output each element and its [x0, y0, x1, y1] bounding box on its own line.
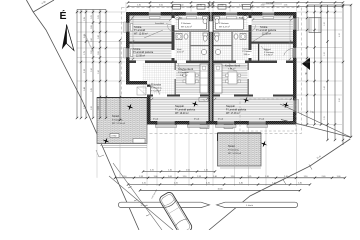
door arc hall right	[229, 63, 237, 71]
partition bath sub right	[214, 31, 249, 32]
svg-text:Fürdő: Fürdő	[239, 17, 245, 20]
svg-text:2.10: 2.10	[91, 106, 93, 110]
bath sink small right	[243, 16, 248, 20]
living left floor	[151, 97, 209, 122]
terrace right tiles	[218, 133, 262, 166]
partition szoba/hall right	[251, 42, 294, 44]
svg-text:(Pa+d): (Pa+d)	[259, 118, 265, 120]
terrace right dark top edge	[218, 132, 262, 134]
svg-text:P. Kerámia: P. Kerámia	[219, 23, 230, 25]
tag box	[110, 134, 119, 138]
window sill right wall top	[297, 18, 299, 31]
svg-text:(Pa+d): (Pa+d)	[218, 118, 224, 120]
right chain top connector	[307, 4, 351, 6]
svg-text:P. Kerámia: P. Kerámia	[181, 23, 192, 25]
car	[158, 191, 193, 236]
svg-text:2.40: 2.40	[298, 183, 302, 185]
dim chain bottom 2	[128, 184, 310, 186]
dim chain left	[77, 9, 106, 11]
marker star	[190, 99, 199, 108]
svg-text:WT: 17.34 m²: WT: 17.34 m²	[112, 122, 125, 125]
partition bath sub left	[175, 31, 209, 32]
svg-text:1.93: 1.93	[139, 176, 143, 178]
radiators left wall windows	[131, 24, 133, 32]
boiler right	[215, 49, 220, 54]
dim chain bottom 1	[115, 177, 345, 179]
boundary east lower diagonal	[209, 139, 350, 230]
svg-text:2.00: 2.00	[168, 176, 172, 178]
party wall center	[209, 12, 211, 125]
dim chain bottom 3	[140, 189, 300, 191]
window sill left wall 1	[124, 22, 126, 33]
chimney stack	[197, 5, 205, 10]
svg-text:WT: 3.47 m²: WT: 3.47 m²	[219, 26, 230, 29]
svg-text:2.40: 2.40	[322, 176, 326, 178]
svg-text:3.46 m²: 3.46 m²	[244, 53, 251, 56]
svg-text:0.95: 0.95	[91, 25, 93, 29]
washer right	[240, 34, 246, 40]
porch overhang dashed right	[240, 99, 296, 131]
svg-text:1.10: 1.10	[204, 170, 208, 172]
partition kamra/belépő right	[258, 44, 259, 61]
svg-text:4.25: 4.25	[142, 183, 146, 185]
svg-text:1.10: 1.10	[168, 170, 172, 172]
svg-text:WT: 12.98 m²: WT: 12.98 m²	[134, 32, 148, 35]
svg-text:1.10: 1.10	[183, 176, 187, 178]
wall left	[126, 12, 130, 82]
svg-text:OTSZ: OTSZ	[111, 136, 117, 138]
svg-text:1.40: 1.40	[324, 86, 326, 90]
kitchen chairs right	[226, 74, 229, 77]
terrace left tiles	[97, 98, 147, 144]
svg-text:0.95: 0.95	[98, 51, 100, 55]
kitchen counter left	[200, 64, 208, 93]
svg-text:1.60: 1.60	[98, 35, 100, 39]
svg-text:P. Laminált parketta: P. Laminált parketta	[175, 108, 196, 111]
svg-text:P. Laminált: P. Laminált	[134, 29, 146, 32]
window sill right wall bottom	[297, 100, 299, 113]
roof overhang dashed	[122, 8, 302, 134]
partition hall top right	[214, 61, 294, 64]
leader in left szoba	[144, 30, 163, 38]
extension lines left	[77, 11, 126, 13]
svg-text:P. Laminált parketta: P. Laminált parketta	[256, 29, 277, 32]
terrace left dark top edge	[97, 97, 147, 99]
svg-text:1.35: 1.35	[84, 17, 86, 21]
road island right pill	[217, 202, 298, 207]
svg-text:2.35: 2.35	[84, 105, 86, 109]
marker star	[101, 136, 110, 145]
radiators top windows	[150, 17, 161, 19]
wall left lower vertical	[147, 85, 151, 122]
door arc bath right	[249, 25, 256, 32]
svg-text:1.25: 1.25	[324, 116, 326, 120]
dim chain bottom short	[143, 171, 215, 173]
svg-text:4.10: 4.10	[339, 33, 341, 37]
kerites diagonal marks	[96, 150, 99, 157]
kitchen counter right	[214, 64, 222, 93]
svg-text:1.20: 1.20	[239, 4, 243, 6]
kitchen left floor	[176, 63, 209, 95]
svg-text:Előszoba: Előszoba	[151, 84, 162, 87]
tag box	[200, 124, 209, 128]
bath corridor left floor	[175, 16, 209, 64]
bath sink small left	[175, 16, 180, 20]
svg-text:1.35: 1.35	[284, 4, 288, 6]
svg-text:2.90: 2.90	[220, 4, 224, 6]
wall right	[293, 12, 297, 125]
door arc bath left	[168, 25, 175, 32]
kitchen chairs left	[183, 74, 186, 77]
extension lines bottom	[146, 125, 148, 186]
chimney stack	[218, 5, 226, 10]
svg-text:1.93: 1.93	[197, 176, 201, 178]
room szoba2 left floor	[130, 44, 172, 61]
svg-text:2.00: 2.00	[98, 106, 100, 110]
svg-text:Fürdő: Fürdő	[177, 17, 183, 20]
svg-text:Szoba: Szoba	[134, 25, 142, 29]
window gaps right wall	[293, 18, 297, 30]
svg-text:7.88 m²: 7.88 m²	[228, 68, 236, 71]
svg-text:P. Kerámia: P. Kerámia	[151, 87, 162, 90]
svg-text:Nappali: Nappali	[175, 104, 184, 108]
wall top	[126, 12, 297, 16]
interior dim szoba1 left	[131, 19, 171, 21]
svg-text:1.75: 1.75	[84, 51, 86, 55]
terrace right step lines	[220, 167, 261, 169]
kitchen table right	[228, 72, 237, 84]
road edge 1	[113, 163, 162, 230]
svg-text:T: 5.23 m²: T: 5.23 m²	[151, 90, 161, 93]
svg-text:4.25: 4.25	[174, 183, 178, 185]
svg-text:WT: 5.20 m²: WT: 5.20 m²	[181, 26, 192, 29]
road edge hash marks	[128, 187, 132, 189]
svg-text:1.10: 1.10	[304, 176, 308, 178]
svg-text:Szemöldök: Szemöldök	[155, 23, 164, 25]
svg-text:3.50: 3.50	[261, 4, 265, 6]
entry door swing	[151, 87, 160, 96]
svg-text:Kamra: Kamra	[243, 49, 250, 51]
svg-text:P. Kerámia: P. Kerámia	[112, 118, 123, 121]
svg-text:1.05: 1.05	[91, 15, 93, 19]
svg-text:2.10: 2.10	[84, 69, 86, 73]
toilet at party wall left	[203, 33, 208, 36]
svg-text:2.90: 2.90	[198, 4, 202, 6]
svg-text:4.25: 4.25	[150, 170, 154, 172]
partition living top left	[147, 95, 209, 97]
interior dim vertical left rooms	[132, 17, 134, 59]
marker star	[125, 102, 134, 111]
svg-text:(Pa+d): (Pa+d)	[194, 118, 200, 120]
bath right floor	[214, 16, 249, 64]
entry threshold left	[137, 87, 146, 95]
bath inner box left	[179, 19, 207, 30]
partition hall top left	[130, 61, 209, 64]
svg-text:1.10: 1.10	[324, 52, 326, 56]
road island left pill	[118, 202, 209, 207]
interior dim living right	[215, 98, 291, 100]
svg-text:OTSZ: OTSZ	[200, 100, 206, 102]
kitchen right floor	[214, 63, 249, 95]
living right floor	[214, 97, 294, 122]
interior dim vertical right rooms	[289, 17, 291, 59]
svg-text:2.00: 2.00	[186, 170, 190, 172]
hall right floor	[252, 44, 294, 61]
extension lines top	[125, 2, 127, 12]
svg-text:J. közút: J. közút	[246, 204, 253, 207]
kitchen table left	[186, 72, 195, 84]
svg-text:3.50: 3.50	[159, 4, 163, 6]
svg-text:1.10: 1.10	[231, 176, 235, 178]
door arc hall left	[178, 63, 186, 71]
boiler left	[201, 49, 206, 54]
svg-text:P. Laminált parketta: P. Laminált parketta	[133, 51, 154, 54]
partition kitchen/hall right	[248, 63, 249, 96]
tag box	[224, 124, 233, 128]
dim chain left inner	[119, 40, 121, 120]
svg-text:P. Laminált parketta: P. Laminált parketta	[226, 108, 247, 111]
entrance arrow A right	[302, 58, 310, 71]
svg-text:Szoba: Szoba	[133, 47, 141, 51]
toilet top party wall left	[203, 17, 208, 20]
boundary northwest segment	[26, 0, 33, 12]
svg-text:1.10: 1.10	[265, 176, 269, 178]
svg-text:0.90: 0.90	[91, 38, 93, 42]
svg-text:P. Kerámia: P. Kerámia	[264, 52, 275, 54]
boundary east leader	[280, 104, 351, 137]
svg-text:10.40: 10.40	[217, 189, 223, 191]
boundary east upper	[281, 120, 351, 138]
chimney stack	[243, 5, 251, 10]
extension lines right	[297, 11, 342, 13]
svg-text:Szoba: Szoba	[260, 25, 268, 29]
svg-text:T: 5.90 m²: T: 5.90 m²	[264, 54, 273, 57]
svg-text:1.00: 1.00	[337, 176, 341, 178]
svg-text:4.40: 4.40	[239, 183, 243, 185]
hash marks east diagonal	[309, 165, 312, 170]
wc left	[184, 34, 188, 39]
sill below french doors	[156, 125, 177, 128]
wall bottom	[147, 121, 297, 125]
svg-text:P. Kerámia: P. Kerámia	[243, 50, 253, 53]
svg-text:2.40: 2.40	[213, 176, 217, 178]
svg-text:1.48: 1.48	[84, 87, 86, 91]
bath inner box right	[216, 19, 244, 30]
window gaps top wall	[149, 12, 162, 16]
interior dim szoba right	[253, 19, 292, 21]
dim chain top	[128, 2, 343, 4]
hall left floor	[143, 63, 175, 95]
svg-text:P. Kerámia: P. Kerámia	[178, 71, 189, 74]
svg-text:WT: 16.20 m²: WT: 16.20 m²	[175, 112, 189, 115]
partition vertical rooms/bath left	[172, 12, 175, 63]
party wall shaft	[209, 21, 212, 32]
svg-text:6.30: 6.30	[339, 98, 341, 102]
svg-text:1.65: 1.65	[91, 88, 93, 92]
ext line terrace left	[96, 144, 98, 178]
road edge 2	[109, 176, 173, 230]
interior dim kitchen right	[215, 65, 246, 67]
dim chain right	[306, 5, 308, 125]
boundary west diagonal	[33, 12, 139, 230]
svg-text:1.90: 1.90	[98, 70, 100, 74]
svg-text:12.08 m²: 12.08 m²	[136, 54, 145, 57]
svg-text:Nappali: Nappali	[226, 104, 235, 108]
svg-text:1.90: 1.90	[91, 68, 93, 72]
partition living top right	[214, 95, 294, 97]
north arrow	[62, 25, 67, 50]
interior dim living left	[152, 98, 207, 100]
terrace left step lines	[100, 145, 147, 147]
window symbol right outside	[309, 18, 321, 33]
marker star	[281, 100, 290, 109]
room szoba1 left floor	[130, 16, 172, 42]
svg-text:4.50 m²: 4.50 m²	[177, 51, 184, 54]
marker star	[241, 95, 250, 104]
room szoba right floor	[252, 16, 294, 42]
washer left	[176, 34, 182, 40]
svg-text:WT: 17.48 m²: WT: 17.48 m²	[226, 112, 240, 115]
svg-text:A: A	[305, 72, 307, 76]
door gaps bottom wall	[157, 121, 175, 125]
svg-text:1.20: 1.20	[180, 4, 184, 6]
svg-text:1.35: 1.35	[137, 4, 141, 6]
partition vertical bath/rooms right	[249, 12, 252, 63]
svg-text:1.05: 1.05	[98, 15, 100, 19]
toilet top party wall right	[215, 17, 220, 20]
marker star	[259, 139, 268, 148]
svg-text:Terasz: Terasz	[112, 115, 120, 118]
partition szoba1/szoba2 left	[130, 42, 173, 44]
wall left step horizontal	[126, 81, 147, 85]
svg-text:4.25: 4.25	[206, 183, 210, 185]
leader in right szoba	[252, 31, 270, 42]
entry door right wall arc	[284, 48, 293, 55]
svg-text:1.20: 1.20	[324, 22, 326, 26]
door arc belépő right	[261, 46, 268, 51]
svg-text:5.25: 5.25	[248, 176, 252, 178]
white box in left terrace	[133, 139, 145, 144]
svg-text:É: É	[60, 9, 67, 22]
boundary north segment	[33, 0, 54, 12]
window sill left wall 2	[124, 48, 126, 59]
interior dim kitchen left	[177, 65, 207, 67]
svg-text:(Pa+d): (Pa+d)	[153, 118, 159, 120]
window gaps left wall	[126, 23, 130, 33]
wc right	[234, 34, 238, 39]
tag box	[199, 98, 208, 102]
partition kitchen/hall left	[175, 63, 176, 96]
svg-text:1.00: 1.00	[154, 176, 158, 178]
chimney X marks party wall	[208, 3, 211, 6]
svg-text:Konyha étkező: Konyha étkező	[178, 68, 194, 71]
toilet at party wall right	[215, 33, 220, 36]
svg-text:P. Kerámia: P. Kerámia	[228, 148, 239, 151]
chimney stack	[173, 5, 181, 10]
